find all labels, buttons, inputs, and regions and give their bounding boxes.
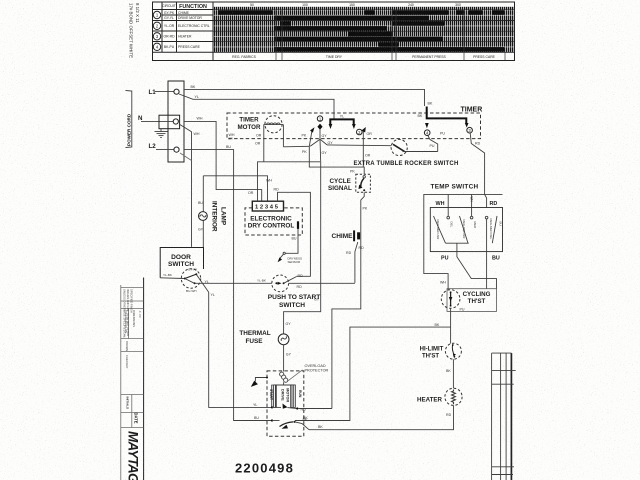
timer contact 2	[357, 129, 363, 135]
overload protector coil	[280, 372, 288, 382]
overload protector label and leader	[288, 370, 303, 381]
start winding	[272, 385, 277, 407]
N terminal	[173, 119, 178, 124]
interior lamp branch wire	[203, 176, 216, 248]
neutral terminal box	[159, 115, 180, 129]
wire BK from L1	[184, 89, 425, 106]
contact 1 pole diamond	[317, 124, 322, 130]
temp switch RD through line	[486, 219, 488, 289]
bar A arrow right	[352, 124, 356, 129]
run winding	[291, 385, 296, 407]
cycle signal switch	[356, 174, 371, 192]
wire GY fuse to motor	[283, 345, 285, 372]
wire YL door to motor	[196, 274, 271, 407]
L1 wire	[155, 91, 174, 93]
timer dashed box	[227, 113, 481, 139]
timeline grid verticals	[275, 10, 277, 61]
timer sequence chart	[153, 2, 515, 61]
cycling thermostat	[441, 290, 460, 309]
timeline hatch bands	[214, 7, 515, 52]
pivot arms	[310, 139, 327, 146]
contact arm arrow sw1 left	[309, 130, 312, 147]
chart header row line	[153, 9, 515, 11]
chart row line 3	[153, 41, 515, 43]
wire BK motor run to cycling	[295, 327, 451, 420]
wire YL from L1	[179, 94, 334, 119]
wire RD terminal5 loop to start switch	[278, 192, 311, 276]
wire RD from contact 3	[470, 133, 486, 208]
push to start switch	[272, 275, 289, 292]
wire PK cycle signal down	[332, 192, 364, 408]
electronic dry control dashed box	[245, 208, 302, 235]
motor YL terminal	[271, 406, 273, 408]
wire PU to cycling box	[457, 243, 497, 289]
hi-limit thermostat	[445, 343, 461, 359]
circuit number 3	[153, 33, 160, 40]
wire BU to dryness sensor	[285, 229, 298, 253]
bar B arrow left	[425, 123, 429, 128]
wire WH branch to terminal 2	[216, 176, 262, 201]
L1 terminal	[174, 89, 179, 94]
motor NO wire	[298, 408, 332, 410]
title block right border	[143, 278, 145, 480]
timer contact 1	[317, 116, 322, 121]
right strip table	[492, 353, 516, 480]
chart row line 1	[153, 20, 515, 22]
wire motor to contact1 arm	[283, 145, 309, 148]
dryness sensor	[283, 252, 285, 254]
door switch contacts	[181, 269, 200, 288]
chart outer frame	[153, 2, 515, 61]
cabinet ground	[255, 378, 267, 382]
electronic dry control terminal strip	[252, 201, 283, 211]
temp switch feeder wires	[424, 194, 503, 289]
wire WH diagonal from N down	[179, 124, 192, 247]
wire cycle signal feed	[309, 146, 364, 174]
wire cycling to hi-limit	[450, 308, 452, 343]
power cord bracket	[126, 91, 132, 148]
wire BU from L2	[184, 150, 272, 421]
motor winding bar	[274, 382, 296, 385]
switch bar B	[427, 107, 467, 124]
temp switch bottom bar	[446, 242, 469, 244]
extra tumble rocker switch	[327, 139, 438, 155]
timer contact 4	[424, 130, 430, 136]
chart row line 2	[153, 30, 515, 32]
contact 2 arm	[362, 130, 364, 167]
neutral wire	[141, 120, 173, 122]
L2 terminal	[174, 147, 179, 152]
timer motor coil	[264, 116, 284, 162]
wire WH from N to right	[184, 121, 268, 201]
title block left edge	[120, 285, 122, 480]
motor centrifugal switch upper	[283, 404, 288, 409]
motor BU terminal	[271, 419, 273, 421]
L2 wire	[156, 149, 174, 151]
ground	[155, 129, 168, 138]
temp switch box	[430, 208, 502, 252]
motor BK output	[295, 422, 310, 430]
timeline solid intervals	[218, 10, 504, 51]
chart column divider circuit	[161, 2, 163, 52]
interior lamp	[199, 212, 208, 221]
bar A arrow left	[329, 124, 333, 129]
title block table frame	[121, 288, 144, 428]
wire door switch to push-to-start	[195, 282, 272, 284]
chart row line 4	[153, 51, 515, 53]
row1 sub divider	[162, 14, 213, 16]
contact 1 stem	[319, 130, 321, 140]
drive motor dashed box	[267, 371, 304, 436]
timer contact 3	[467, 127, 473, 133]
chart column divider color	[176, 2, 178, 52]
chart column divider function	[212, 2, 214, 61]
fax noise overlay	[0, 0, 1, 1]
wire PU contact4 to rocker	[428, 135, 438, 151]
heater	[445, 388, 462, 405]
wire start switch output	[289, 282, 355, 284]
temp switch poles	[447, 216, 450, 219]
circuit number 4	[153, 43, 160, 50]
wire OR terminal1	[258, 162, 321, 201]
door switch box	[160, 248, 203, 278]
thermal fuse	[278, 334, 289, 345]
motor centrifugal switch lower	[272, 420, 280, 422]
wire heater bottom	[309, 405, 454, 429]
terminal block	[168, 81, 184, 162]
circuit number 2	[153, 22, 160, 29]
wire hi-limit to heater	[452, 359, 454, 388]
circuit number 1	[153, 11, 160, 18]
wire from L2 diagonal	[180, 153, 192, 161]
wire RD chime tap	[355, 242, 358, 283]
wire GY pivot down to thermal fuse	[284, 139, 321, 334]
dry control BU output bar	[297, 221, 299, 229]
chime	[354, 230, 359, 241]
cycling thermostat box	[447, 289, 497, 312]
bar B arrow right	[465, 123, 469, 128]
switch bar A	[330, 119, 353, 124]
temp switch blades	[434, 216, 446, 243]
